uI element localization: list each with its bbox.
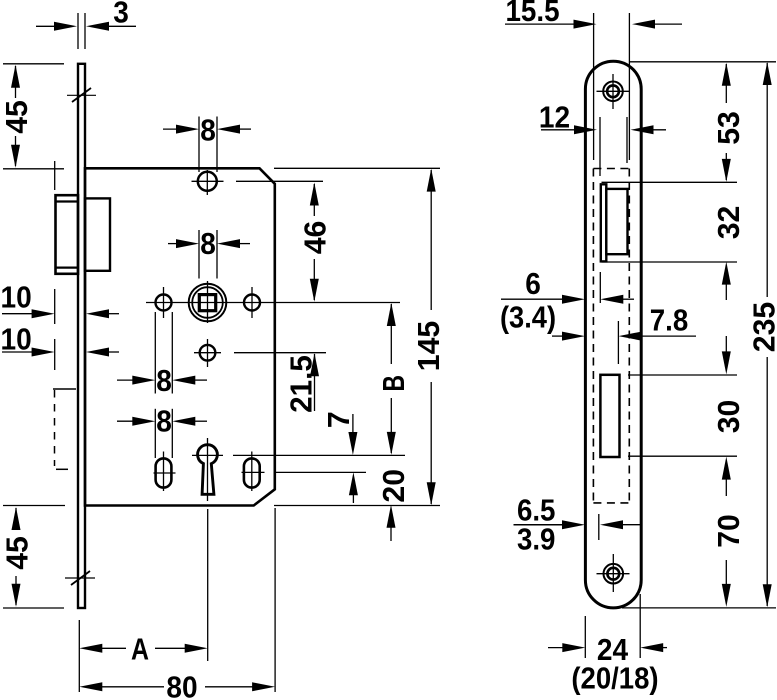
svg-text:12: 12 [539,100,570,135]
svg-text:70: 70 [711,514,746,548]
svg-text:(20/18): (20/18) [571,661,658,696]
svg-text:80: 80 [166,670,197,700]
svg-text:(3.4): (3.4) [500,300,556,335]
svg-text:B: B [376,375,411,392]
svg-text:46: 46 [297,221,332,255]
svg-text:8: 8 [156,363,172,398]
svg-text:30: 30 [711,400,746,434]
svg-text:45: 45 [0,100,34,134]
svg-text:21.5: 21.5 [284,355,319,413]
svg-text:7: 7 [321,411,356,428]
svg-text:235: 235 [747,302,777,352]
svg-text:53: 53 [711,111,746,145]
svg-text:6: 6 [525,266,541,301]
svg-text:8: 8 [156,404,172,439]
svg-text:8: 8 [200,226,216,261]
svg-text:3.9: 3.9 [517,522,556,557]
svg-text:145: 145 [411,321,446,371]
svg-text:7.8: 7.8 [650,303,689,338]
svg-text:10: 10 [1,322,32,357]
svg-text:45: 45 [0,536,35,570]
svg-text:A: A [131,632,149,667]
svg-text:3: 3 [113,0,129,30]
svg-text:15.5: 15.5 [505,0,559,28]
svg-text:32: 32 [711,206,746,240]
svg-text:10: 10 [1,280,32,315]
svg-text:20: 20 [376,469,411,503]
svg-text:8: 8 [200,113,216,148]
